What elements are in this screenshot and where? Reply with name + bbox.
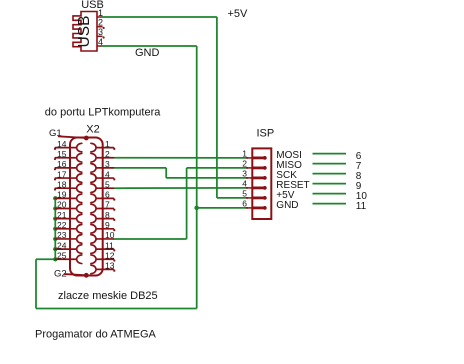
USB pin 2 [97, 26, 103, 28]
wire stub LPT pin 6 [313, 153, 347, 155]
junction GND at ISP branch [194, 206, 199, 211]
svg-text:15: 15 [57, 149, 67, 159]
svg-text:3: 3 [242, 169, 247, 179]
junction GND at X2 pin 25 [53, 257, 57, 261]
svg-text:GND: GND [276, 200, 298, 211]
X2 pin 9 unconnected dot [113, 229, 115, 231]
X2 pin 8 unconnected dot [113, 219, 115, 221]
X2 pin 11 [91, 245, 114, 254]
svg-text:24: 24 [57, 240, 67, 250]
svg-text:11: 11 [356, 201, 367, 212]
X2 pin 4 unconnected dot [113, 178, 115, 180]
X2 pin 2 [91, 153, 114, 162]
svg-text:ISP: ISP [257, 128, 275, 140]
X2 pin 19 [55, 194, 82, 203]
svg-text:do portu LPTkomputera: do portu LPTkomputera [45, 107, 161, 119]
X2 pin 22 [55, 225, 82, 234]
svg-text:3: 3 [105, 159, 110, 169]
wire MISO: into ISP pin2 [187, 167, 248, 169]
X2 pin 15 unconnected dot [54, 158, 56, 160]
USB pin 3 [97, 35, 103, 37]
X2 pin 3 [91, 164, 114, 173]
svg-text:4: 4 [105, 169, 110, 179]
wire MOSI: X2 pin2 to ISP pin1 [114, 157, 249, 159]
svg-text:GND: GND [135, 47, 160, 59]
svg-text:18: 18 [57, 179, 67, 189]
wire stub LPT pin 9 [313, 183, 347, 185]
X2 pin 12 unconnected dot [113, 259, 115, 261]
X2 pin 25 [55, 255, 82, 264]
wire GND: into X2 pin25 [36, 258, 55, 260]
svg-text:19: 19 [57, 190, 67, 200]
ISP pin 6 [246, 207, 265, 209]
X2 pin 21 [55, 214, 82, 223]
X2 pin 4 [91, 174, 114, 183]
X2 pin 1 unconnected dot [113, 148, 115, 150]
svg-text:6: 6 [242, 199, 247, 209]
ISP pin 4 pad dot [263, 186, 267, 190]
svg-text:25: 25 [57, 250, 67, 260]
wire GND: main vertical [196, 46, 198, 309]
X2 pin 5 [91, 184, 114, 193]
svg-text:4: 4 [242, 179, 247, 189]
X2 pin 6 unconnected dot [113, 199, 115, 201]
svg-text:zlacze meskie DB25: zlacze meskie DB25 [58, 290, 158, 302]
wire GND: left vertical rise [35, 259, 37, 308]
X2 pin 7 [91, 204, 114, 213]
X2 pin 20 [55, 204, 82, 213]
X2 pin 14 unconnected dot [54, 148, 56, 150]
ISP pin 3 pad dot [263, 176, 267, 180]
X2 pin 7 unconnected dot [113, 209, 115, 211]
X2 pin 16 unconnected dot [54, 168, 56, 170]
wire GND: USB pin4 horizontal [102, 45, 197, 47]
svg-text:7: 7 [105, 200, 110, 210]
ISP pin 3 [246, 177, 265, 179]
wire MISO: X2 pin10 horizontal [114, 238, 187, 240]
wire GND: bus along X2 pins 19-25 [54, 198, 56, 259]
wire SCK: into ISP pin3 [166, 177, 248, 179]
svg-text:1: 1 [242, 149, 247, 159]
svg-text:USB: USB [76, 16, 93, 48]
USB pin 3 unconnected dot [103, 36, 105, 38]
svg-text:Progamator do ATMEGA: Progamator do ATMEGA [35, 329, 157, 341]
svg-text:G1: G1 [49, 128, 62, 139]
junction GND at X2 pin 21 [53, 216, 57, 220]
svg-text:X2: X2 [86, 124, 99, 136]
svg-text:17: 17 [57, 169, 67, 179]
X2 pin 23 [55, 235, 82, 244]
X2 pin 6 [91, 194, 114, 203]
wire SCK: X2 pin3 horizontal [114, 167, 167, 169]
ISP pin 4 [246, 187, 265, 189]
svg-text:3: 3 [98, 27, 103, 37]
svg-text:8: 8 [105, 210, 110, 220]
svg-text:6: 6 [105, 190, 110, 200]
svg-text:16: 16 [57, 159, 67, 169]
junction GND at X2 pin 23 [53, 237, 57, 241]
svg-text:11: 11 [105, 240, 114, 250]
X2 pin 10 [91, 235, 114, 244]
junction G2 on X2 body [84, 273, 89, 278]
X2 pin 16 [55, 164, 82, 173]
X2 pin 15 [55, 153, 82, 162]
ISP pin 2 [246, 167, 265, 169]
X2 pin 1 [91, 143, 114, 152]
node G2 lead [64, 274, 86, 275]
junction G1 on X2 body [84, 136, 89, 141]
svg-text:21: 21 [57, 210, 67, 220]
svg-text:20: 20 [57, 200, 67, 210]
wire +5V: into ISP pin5 [217, 197, 248, 199]
USB pin 2 unconnected dot [103, 27, 105, 29]
wire MISO: vertical rise [186, 168, 188, 239]
X2 pin 18 [55, 184, 82, 193]
X2 pin 11 unconnected dot [113, 249, 115, 251]
X2 pin 24 [55, 245, 82, 254]
ISP pin 1 pad dot [263, 156, 267, 160]
wire stub LPT pin 7 [313, 163, 347, 165]
svg-text:2: 2 [105, 149, 110, 159]
svg-text:10: 10 [105, 230, 115, 240]
X2 pin 13 unconnected dot [113, 270, 115, 272]
wire GND: branch to ISP pin6 [197, 207, 248, 209]
wire stub LPT pin 10 [313, 193, 347, 195]
ISP pin 2 pad dot [263, 166, 267, 170]
wire GND: bottom horizontal [36, 308, 197, 310]
USB pin 4 [97, 45, 103, 47]
ISP pin 1 [246, 157, 265, 159]
svg-text:2: 2 [242, 159, 247, 169]
wire RESET: X2 pin5 to ISP pin4 [114, 187, 249, 189]
junction GND at X2 pin 22 [53, 227, 57, 231]
svg-text:1: 1 [105, 139, 110, 149]
wire stub LPT pin 11 [313, 203, 347, 205]
node G1 lead [58, 136, 86, 138]
svg-text:22: 22 [57, 220, 67, 230]
ISP pin 6 pad dot [263, 206, 267, 210]
svg-text:13: 13 [105, 261, 115, 271]
junction GND at X2 pin 20 [53, 206, 57, 210]
wire SCK: jog down [165, 168, 167, 178]
X2 pin 9 [91, 225, 114, 234]
svg-text:+5V: +5V [228, 8, 249, 20]
ISP pin 5 [246, 197, 265, 199]
svg-text:14: 14 [57, 139, 67, 149]
svg-text:2: 2 [98, 18, 103, 28]
svg-text:9: 9 [105, 220, 110, 230]
X2 pin 8 [91, 214, 114, 223]
svg-text:23: 23 [57, 230, 67, 240]
X2 pin 13 [91, 265, 114, 274]
X2 pin 17 unconnected dot [54, 178, 56, 180]
X2 pin 18 unconnected dot [54, 188, 56, 190]
junction GND at X2 pin 24 [53, 247, 57, 251]
X2 pin 17 [55, 174, 82, 183]
wire +5V: vertical drop [216, 17, 218, 198]
X2 pin 14 [55, 143, 82, 152]
connector U-USB body [73, 12, 97, 52]
junction GND at X2 pin 19 [53, 196, 57, 200]
svg-text:5: 5 [242, 189, 247, 199]
wire +5V: USB pin1 horizontal [102, 16, 217, 18]
connector ISP body [252, 148, 271, 219]
svg-text:5: 5 [105, 179, 110, 189]
svg-text:12: 12 [105, 250, 115, 260]
USB pin 1 [97, 16, 103, 18]
connector X2 body [70, 138, 103, 276]
ISP pin 5 pad dot [263, 196, 267, 200]
wire stub LPT pin 8 [313, 173, 347, 175]
X2 pin 12 [91, 255, 114, 264]
